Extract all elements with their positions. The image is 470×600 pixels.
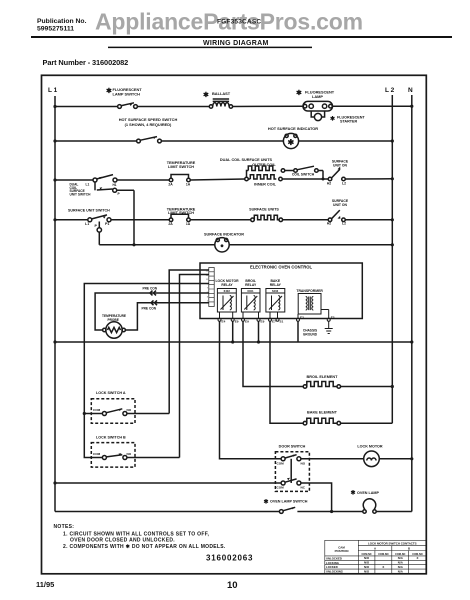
svg-text:DOOR SWITCH: DOOR SWITCH: [279, 444, 306, 448]
svg-text:RELAY: RELAY: [245, 283, 257, 287]
svg-text:LOCK SWITCH A: LOCK SWITCH A: [96, 391, 126, 395]
svg-text:LAMP: LAMP: [312, 94, 323, 99]
svg-text:UNLOCKED: UNLOCKED: [326, 556, 342, 560]
svg-text:E9: E9: [245, 320, 249, 324]
svg-text:LIMIT SWITCH: LIMIT SWITCH: [168, 165, 194, 169]
svg-text:SURFACE INDICATOR: SURFACE INDICATOR: [204, 233, 244, 237]
svg-text:NO: NO: [127, 452, 132, 456]
svg-text:L 2: L 2: [385, 87, 395, 94]
svg-text:N/O: N/O: [364, 556, 370, 560]
svg-text:COM: COM: [93, 408, 101, 412]
svg-text:LAMP SWITCH: LAMP SWITCH: [113, 92, 141, 97]
svg-text:GROUND: GROUND: [303, 332, 318, 336]
svg-text:E9: E9: [261, 320, 265, 324]
svg-text:COIL SWITCH: COIL SWITCH: [292, 173, 315, 177]
svg-text:COM-NO: COM-NO: [378, 553, 388, 556]
svg-text:LOCK SWITCH B: LOCK SWITCH B: [96, 435, 126, 439]
svg-text:COM: COM: [277, 486, 285, 490]
svg-text:1A: 1A: [186, 222, 191, 226]
svg-text:316002063: 316002063: [206, 554, 253, 563]
svg-text:E3: E3: [331, 316, 335, 320]
svg-text:✱: ✱: [106, 87, 112, 95]
svg-text:10: 10: [227, 580, 238, 591]
svg-text:UNIT ON: UNIT ON: [333, 203, 347, 207]
svg-text:L2: L2: [342, 181, 346, 185]
svg-text:COM: COM: [277, 461, 285, 465]
svg-text:X: X: [382, 565, 384, 569]
svg-text:LOCK MOTOR: LOCK MOTOR: [357, 444, 382, 448]
svg-text:✱: ✱: [351, 490, 356, 497]
svg-text:LOCK MOTOR SWITCH CONTACTS: LOCK MOTOR SWITCH CONTACTS: [368, 541, 417, 545]
svg-text:L1: L1: [85, 222, 89, 226]
svg-text:E9: E9: [235, 320, 239, 324]
svg-text:H2: H2: [327, 181, 331, 185]
svg-text:LIMIT SWITCH: LIMIT SWITCH: [168, 211, 194, 215]
svg-text:5995275111: 5995275111: [37, 26, 74, 33]
svg-text:UNIT ON: UNIT ON: [333, 163, 347, 167]
svg-text:X: X: [417, 556, 419, 560]
svg-text:SURFACE UNITS: SURFACE UNITS: [249, 208, 279, 212]
svg-text:OVEN LAMP: OVEN LAMP: [357, 491, 379, 495]
svg-text:PRE CON: PRE CON: [143, 286, 158, 290]
svg-text:DUAL COIL SURFACE UNITS: DUAL COIL SURFACE UNITS: [220, 158, 273, 162]
svg-text:N/O: N/O: [364, 565, 370, 569]
svg-text:✱: ✱: [330, 116, 335, 123]
svg-text:P1: P1: [105, 222, 109, 226]
svg-text:WIRING DIAGRAM: WIRING DIAGRAM: [203, 40, 269, 47]
svg-text:H1: H1: [113, 183, 117, 187]
svg-text:NOTES:: NOTES:: [54, 524, 75, 530]
svg-text:Part Number - 316002082: Part Number - 316002082: [43, 58, 129, 67]
svg-text:1. CIRCUIT SHOWN WITH ALL CON: 1. CIRCUIT SHOWN WITH ALL CONTROLS SET T…: [63, 531, 210, 537]
svg-text:BAKE ELEMENT: BAKE ELEMENT: [307, 411, 338, 415]
svg-text:COM: COM: [93, 452, 101, 456]
svg-text:STARTER: STARTER: [340, 120, 357, 124]
svg-text:ELECTRONIC OVEN CONTROL: ELECTRONIC OVEN CONTROL: [250, 264, 313, 269]
svg-text:PROBE: PROBE: [108, 318, 119, 322]
svg-text:LOCKED: LOCKED: [326, 565, 338, 569]
svg-text:L 1: L 1: [48, 87, 58, 94]
svg-text:HOT SURFACE INDICATOR: HOT SURFACE INDICATOR: [268, 126, 318, 131]
svg-text:✱: ✱: [264, 499, 269, 506]
svg-text:FGF353CASC: FGF353CASC: [217, 19, 261, 26]
svg-text:E7: E7: [272, 320, 276, 324]
svg-text:E2: E2: [300, 316, 304, 320]
svg-text:B: B: [408, 547, 410, 551]
svg-text:✱: ✱: [203, 91, 209, 99]
svg-text:NC: NC: [301, 486, 306, 490]
svg-text:6403: 6403: [272, 289, 279, 293]
svg-text:6401: 6401: [247, 289, 254, 293]
svg-text:SURFACE UNIT SWITCH: SURFACE UNIT SWITCH: [68, 209, 110, 213]
svg-text:E4: E4: [222, 320, 226, 324]
svg-text:✱: ✱: [296, 89, 302, 97]
svg-text:BROIL ELEMENT: BROIL ELEMENT: [307, 375, 339, 379]
svg-text:2A: 2A: [168, 182, 173, 186]
svg-text:1A: 1A: [186, 182, 191, 186]
svg-text:INNER COIL: INNER COIL: [254, 183, 277, 187]
svg-text:N/O: N/O: [364, 569, 370, 573]
svg-text:L2: L2: [342, 221, 346, 225]
svg-text:6402: 6402: [224, 289, 231, 293]
svg-text:LOCKING: LOCKING: [326, 561, 339, 565]
svg-text:RELAY: RELAY: [270, 283, 282, 287]
svg-text:BALLAST: BALLAST: [212, 91, 231, 96]
svg-text:L1: L1: [86, 182, 90, 186]
svg-text:RELAY: RELAY: [221, 283, 233, 287]
svg-text:H2: H2: [327, 221, 331, 225]
svg-text:Publication No.: Publication No.: [37, 18, 87, 25]
svg-text:POSITION: POSITION: [335, 549, 349, 553]
svg-text:✱: ✱: [288, 138, 295, 147]
svg-text:NO: NO: [127, 408, 132, 412]
svg-text:(1 SHOWN, 4 REQUIRED): (1 SHOWN, 4 REQUIRED): [125, 122, 172, 127]
svg-text:N: N: [408, 87, 413, 94]
svg-text:PRE CON: PRE CON: [142, 306, 157, 310]
svg-text:2A: 2A: [168, 222, 173, 226]
svg-text:OVEN LAMP SWITCH: OVEN LAMP SWITCH: [270, 500, 308, 504]
svg-text:S1: S1: [280, 320, 284, 324]
svg-text:OVEN DOOR CLOSED AND UNLOCKED.: OVEN DOOR CLOSED AND UNLOCKED.: [70, 538, 175, 544]
svg-text:NO: NO: [301, 461, 306, 465]
svg-text:2. COMPONENTS WITH ✱ DO NOT A: 2. COMPONENTS WITH ✱ DO NOT APPEAR ON AL…: [63, 544, 226, 550]
svg-text:UNLOCKING: UNLOCKING: [326, 570, 343, 574]
svg-text:11/95: 11/95: [36, 580, 54, 589]
svg-text:N/O: N/O: [364, 561, 370, 565]
svg-text:OUTER COIL: OUTER COIL: [252, 163, 276, 167]
svg-text:TRANSFORMER: TRANSFORMER: [296, 289, 323, 293]
svg-text:UNIT SWITCH: UNIT SWITCH: [70, 192, 92, 196]
